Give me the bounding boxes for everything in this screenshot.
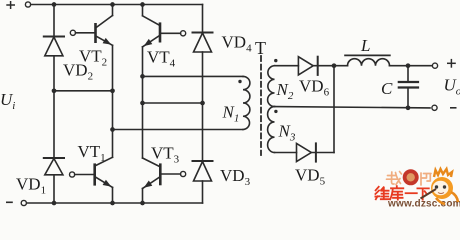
label - output [450,107,457,109]
transistor VT2 [70,16,112,46]
transformer secondary winding N2 [268,66,275,107]
wire N2 to VD6 [275,65,299,67]
svg-text:L: L [360,36,370,55]
terminal - input [21,200,26,205]
svg-text:C: C [381,79,393,98]
diode VD3 [193,161,213,181]
transformer secondary winding N3 [268,107,275,153]
wire VD5 cathode up to VD6 node [333,66,335,153]
node VD6 cathode [332,63,337,68]
terminal + input [25,2,30,7]
capacitor C [399,66,418,108]
node bottom rail left [52,201,57,206]
transformer T primary winding N1 [243,76,250,129]
node C bottom [406,105,411,110]
label + input [6,1,15,9]
transformer core [260,56,262,155]
wire VT4/VT3 branch x=142.5 [142,5,144,16]
terminal + output [432,63,437,68]
svg-text:www.dzsc.com: www.dzsc.com [387,199,460,209]
polarity dot N3 [274,110,277,113]
diode VD4 [193,33,213,53]
diode VD6 [298,57,317,75]
wire top rail [31,4,203,6]
wire L to output plus [390,65,433,67]
node bottom rail right [140,201,145,206]
node A right [110,88,115,93]
inductor L [345,55,390,65]
node B lower left [140,101,145,106]
wire bottom rail [26,202,202,204]
node C top [406,63,411,68]
diode VD5 [297,143,316,161]
node top rail left [52,2,57,7]
wire node B lower link [143,102,203,104]
label + output [447,59,456,68]
node B lower right [200,101,205,106]
node top rail right [140,2,145,7]
polarity dot N1 [238,80,241,83]
watermark mascot [421,169,459,204]
wire node A horizontal [54,90,113,92]
wire VT2/VT1 branch x=112.5 [112,5,114,16]
node top rail mid [110,2,115,7]
transistor VT4 [143,16,186,47]
diode VD2 [44,37,64,56]
wire VD5 to node [311,152,334,154]
wire VD2/VD1 left branch x=54 [53,5,55,37]
node A tap [110,127,115,132]
wire center tap to output minus [275,107,431,108]
transistor VT3 [143,158,186,189]
wire node A to primary bottom [113,129,244,131]
wire VD4/VD3 branch x=202.5 [202,5,204,33]
wire node B to primary top [143,75,244,77]
node A left [52,88,57,93]
transistor VT1 [70,157,113,187]
watermark wo xin pian [387,172,432,186]
svg-text:T: T [255,38,266,58]
terminal - output [432,105,437,110]
node bottom rail mid [110,201,115,206]
label - input [6,201,13,203]
wire VD6 to L [313,65,347,67]
diode VD1 [44,158,64,175]
node B upper [140,74,145,79]
wire N3 to VD5 [275,152,297,154]
polarity dot N2 [274,59,277,62]
watermark weiku yixia [375,186,428,199]
